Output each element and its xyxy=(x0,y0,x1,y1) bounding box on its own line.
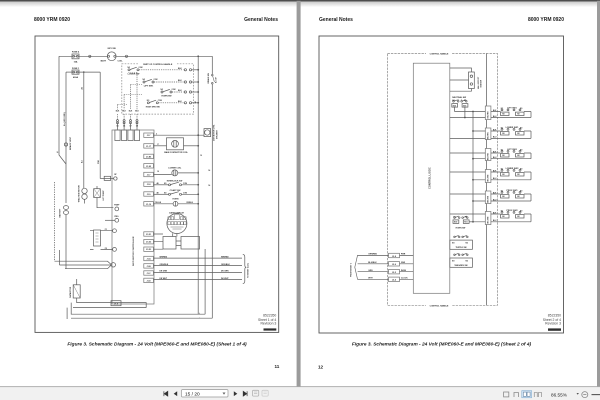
svg-text:J1-17: J1-17 xyxy=(146,146,151,148)
svg-text:DASH DISPLAY: DASH DISPLAY xyxy=(169,211,184,214)
wire V2 left rail xyxy=(65,72,67,269)
switch HIGH SPD SW contacts xyxy=(147,100,158,104)
wire B minus converge xyxy=(55,261,112,269)
svg-text:B+ (LED GND): B+ (LED GND) xyxy=(64,112,66,126)
svg-text:COM: COM xyxy=(158,100,163,102)
svg-text:BELTRN: BELTRN xyxy=(488,153,490,160)
svg-text:NEUTRAL SW: NEUTRAL SW xyxy=(452,96,466,99)
svg-text:11: 11 xyxy=(275,364,280,369)
svg-text:11: 11 xyxy=(57,152,59,154)
bus B plus xyxy=(71,313,205,315)
svg-text:DATA: DATA xyxy=(401,269,407,272)
node connector on top wire right xyxy=(125,55,127,57)
terminal F2 xyxy=(113,248,117,252)
icon single page view xyxy=(504,392,509,397)
svg-text:TANG/REV SW: TANG/REV SW xyxy=(454,264,467,267)
svg-text:Figure 3. Schematic Diagram -: Figure 3. Schematic Diagram - 24 Volt (M… xyxy=(352,342,532,348)
brace from sheet 1 xyxy=(355,255,358,280)
svg-text:J1-B: J1-B xyxy=(147,266,152,268)
wire switch row 4 xyxy=(158,102,183,104)
svg-text:BLU/BLK: BLU/BLK xyxy=(368,262,377,264)
svg-text:COIL: COIL xyxy=(118,60,124,62)
toolbar background xyxy=(0,387,600,400)
svg-text:Figure 3. Schematic Diagram -: Figure 3. Schematic Diagram - 24 Volt (M… xyxy=(67,342,247,348)
switch module LOWER SW2 xyxy=(491,170,531,180)
svg-text:DK WHT: DK WHT xyxy=(160,278,168,280)
connector J7 plug xyxy=(111,301,121,306)
connector block 4 xyxy=(485,170,491,183)
svg-text:J7-8: J7-8 xyxy=(114,303,118,305)
svg-text:PROX SW1: PROX SW1 xyxy=(507,190,519,192)
svg-text:8522350: 8522350 xyxy=(263,313,276,317)
switch module LIFT SW2 xyxy=(491,151,531,159)
label CONTROL HANDLE bottom xyxy=(426,303,452,307)
wire neutral drops xyxy=(455,107,465,117)
wire switch row 1 xyxy=(139,69,184,71)
wire V4 PSD xyxy=(99,72,101,178)
wire sensor feeds xyxy=(450,68,472,91)
gap between page 1 and page 2 xyxy=(297,1,301,387)
wire battery plus top run xyxy=(59,55,212,57)
svg-text:BELTRN: BELTRN xyxy=(488,132,490,139)
svg-text:HORN: HORN xyxy=(173,199,179,201)
svg-text:J1-D3: J1-D3 xyxy=(146,249,151,251)
footer revision block page 1 xyxy=(258,313,276,325)
switch module LIFT SW1 xyxy=(491,109,531,118)
svg-text:GRN: GRN xyxy=(368,270,373,272)
wire left drop lines xyxy=(54,182,56,261)
label TANG REV SW xyxy=(452,260,469,262)
svg-text:F2: F2 xyxy=(105,248,107,250)
svg-text:B+ KEY: B+ KEY xyxy=(215,76,217,83)
svg-text:COM: COM xyxy=(183,193,188,195)
junction dot fuse1 node xyxy=(83,71,85,73)
wire V6 rail with brake switch xyxy=(211,56,213,318)
motor traction upper xyxy=(82,188,87,193)
label part of control handle xyxy=(139,62,178,66)
footer revision block page 2 xyxy=(543,313,561,325)
icon continuous view xyxy=(514,393,518,398)
gap right of page 2 xyxy=(597,1,600,387)
svg-text:J1-10: J1-10 xyxy=(146,204,151,206)
switch HORN SW contacts xyxy=(161,89,172,93)
label C pins xyxy=(116,125,138,127)
controller U1 box xyxy=(112,130,154,304)
key switch SW1 xyxy=(107,52,116,61)
svg-text:NO1: NO1 xyxy=(464,222,467,224)
wire J1-7 row to speaker xyxy=(153,134,204,136)
svg-text:COM: COM xyxy=(139,67,144,69)
svg-text:HALL EFFECT: HALL EFFECT xyxy=(477,76,480,89)
svg-text:TURTLE SW: TURTLE SW xyxy=(455,247,466,249)
svg-text:FUSE 1: FUSE 1 xyxy=(72,68,80,70)
svg-text:C6: C6 xyxy=(123,125,125,127)
switch module PROX SW2 xyxy=(491,212,531,222)
svg-text:PSD: PSD xyxy=(98,159,100,164)
svg-text:TRACTION MOTOR: TRACTION MOTOR xyxy=(77,185,80,203)
svg-text:86.55%: 86.55% xyxy=(551,392,567,397)
svg-text:HORN SW: HORN SW xyxy=(456,228,466,230)
labels module LOWER SW1 xyxy=(488,127,524,139)
dash display M1 xyxy=(167,214,187,234)
svg-text:10: 10 xyxy=(200,155,202,157)
svg-text:J2-8: J2-8 xyxy=(392,256,396,258)
svg-text:DIST MOTOR CTRL: DIST MOTOR CTRL xyxy=(214,124,216,141)
label J1 pins xyxy=(146,135,151,282)
button prev page xyxy=(174,391,178,396)
labels module LIFT SW1 xyxy=(488,107,524,118)
svg-text:LIFT SW2: LIFT SW2 xyxy=(507,149,517,151)
wire fuse1 left xyxy=(66,71,72,73)
svg-text:KEY SW: KEY SW xyxy=(108,48,116,50)
switch TURTLE SW xyxy=(450,235,473,249)
svg-text:BRAKE SW: BRAKE SW xyxy=(207,73,210,84)
battery BT1 xyxy=(63,206,68,210)
svg-text:BATT: BATT xyxy=(101,59,107,62)
horn LS1 xyxy=(153,203,173,205)
connector block 5 xyxy=(485,191,491,204)
wire switch row 2 xyxy=(154,81,184,83)
label CONTROL HANDLE top xyxy=(426,52,452,56)
svg-text:FUSE 4: FUSE 4 xyxy=(72,51,80,54)
switch brake SW contacts xyxy=(212,74,214,76)
button last page xyxy=(243,391,247,396)
svg-text:ORG/BLK: ORG/BLK xyxy=(221,264,230,266)
coil K2 lower xyxy=(153,173,171,175)
connector J1 pin boxes xyxy=(144,133,154,283)
connector block 3 xyxy=(485,149,491,161)
svg-text:NO1: NO1 xyxy=(463,105,466,107)
button rotate ghost xyxy=(253,390,259,396)
connector J2 comm plugs xyxy=(389,253,400,281)
svg-text:+: + xyxy=(199,312,200,314)
wire V3 A1 xyxy=(83,72,85,188)
wire dashed drops below handle box xyxy=(118,114,138,120)
wire V5 rail xyxy=(197,56,199,314)
switch HORN SW contacts page2 xyxy=(453,216,469,223)
motor traction lower xyxy=(94,230,101,246)
wire dashed internal routing xyxy=(118,73,138,110)
page 1 small labels xyxy=(57,48,250,318)
label TURTLE SW xyxy=(452,243,469,245)
svg-text:PROX SW2: PROX SW2 xyxy=(507,210,519,212)
wire pin drops to J6 plugs xyxy=(118,123,138,131)
svg-text:BELTRN: BELTRN xyxy=(488,216,490,223)
svg-text:J1-7: J1-7 xyxy=(147,175,151,177)
labels module PROX SW2 xyxy=(488,210,524,224)
node brake vent circle xyxy=(64,143,67,146)
svg-text:12: 12 xyxy=(318,365,324,370)
svg-text:SENSOR: SENSOR xyxy=(481,79,483,87)
switch module LOWER SW1 xyxy=(491,129,531,139)
connector block 6 xyxy=(485,212,491,225)
svg-text:BRAKE VENT: BRAKE VENT xyxy=(69,136,72,150)
wire horn link xyxy=(469,221,473,223)
svg-text:CONTROL LOGIC: CONTROL LOGIC xyxy=(428,167,432,189)
terminal F1 xyxy=(113,229,117,233)
label J2 plugs xyxy=(392,256,397,282)
svg-text:WH/RED: WH/RED xyxy=(160,256,168,258)
svg-text:C7: C7 xyxy=(129,125,131,127)
svg-text:WH/RED: WH/RED xyxy=(221,256,229,258)
switch NEUTRAL SW contacts xyxy=(452,100,468,107)
svg-text:YEL/LB: YEL/LB xyxy=(155,202,162,204)
svg-text:LOWER SW: LOWER SW xyxy=(128,73,140,75)
svg-text:400A: 400A xyxy=(73,76,78,79)
svg-text:CAPACITOR: CAPACITOR xyxy=(69,286,72,298)
svg-text:8000 YRM 0920: 8000 YRM 0920 xyxy=(34,17,70,23)
svg-text:8522350: 8522350 xyxy=(548,313,561,317)
svg-text:LIFT SW1: LIFT SW1 xyxy=(507,107,517,109)
junction dots collector xyxy=(464,111,474,223)
connector block 2 xyxy=(485,128,491,140)
svg-text:15 / 20: 15 / 20 xyxy=(185,391,200,397)
svg-text:J1-D: J1-D xyxy=(147,280,152,282)
label wire number ticks xyxy=(156,134,159,195)
svg-text:J1-A: J1-A xyxy=(147,258,152,261)
svg-text:COM: COM xyxy=(183,183,188,185)
svg-text:F1: F1 xyxy=(105,229,107,231)
svg-text:ORN/RED: ORN/RED xyxy=(368,254,377,256)
wire display feeds xyxy=(153,234,163,249)
svg-text:DK WHT: DK WHT xyxy=(221,278,229,280)
svg-text:C8: C8 xyxy=(136,125,138,127)
svg-text:RED/LB: RED/LB xyxy=(187,202,194,204)
svg-text:CONTROL HANDLE: CONTROL HANDLE xyxy=(430,304,449,307)
wire SP feed xyxy=(100,178,113,180)
svg-text:COAST SW: COAST SW xyxy=(170,189,181,192)
svg-text:DK GRN: DK GRN xyxy=(160,271,168,273)
terminal B minus xyxy=(111,263,115,267)
svg-text:HIGH SPD SW: HIGH SPD SW xyxy=(146,106,160,108)
svg-text:MAIN CONTACTOR COIL: MAIN CONTACTOR COIL xyxy=(164,151,188,154)
node connector on top wire xyxy=(89,55,91,57)
connector block 1 xyxy=(485,106,491,120)
wire bus risers xyxy=(67,249,205,319)
svg-text:LOWER COIL: LOWER COIL xyxy=(168,167,182,169)
switch interlock contacts xyxy=(153,184,168,186)
svg-text:COM: COM xyxy=(154,79,159,81)
svg-text:HORN SW: HORN SW xyxy=(161,96,171,98)
bus B minus xyxy=(71,317,212,319)
icon facing continuous view xyxy=(534,393,541,398)
wire feeds from collector xyxy=(455,112,486,222)
button snapshot ghost xyxy=(262,390,268,396)
labels module LIFT SW2 xyxy=(488,149,524,160)
svg-text:CONTROL HANDLE: CONTROL HANDLE xyxy=(430,53,449,56)
svg-text:LIFT SW1: LIFT SW1 xyxy=(144,86,154,88)
terminal PUMP xyxy=(115,207,119,211)
svg-text:6: 6 xyxy=(156,134,157,136)
top shadow under bar xyxy=(0,2,600,8)
terminal PMG xyxy=(115,218,119,222)
svg-text:BATTERY: BATTERY xyxy=(58,208,61,217)
svg-text:Revision 3: Revision 3 xyxy=(260,322,276,326)
contactor coil K1 xyxy=(153,145,166,147)
wire feeds from logic xyxy=(450,118,486,215)
svg-text:COM: COM xyxy=(172,89,177,91)
svg-text:General Notes: General Notes xyxy=(244,17,278,23)
switch TANG REV SW xyxy=(450,253,473,267)
switch LOWER SW contacts xyxy=(128,67,139,71)
zoom dropdown caret xyxy=(577,393,579,395)
svg-text:PMG: PMG xyxy=(114,216,119,218)
svg-text:GND: GND xyxy=(401,262,406,264)
wire comm lines to sheet 2 xyxy=(153,258,242,279)
svg-text:FROM SHEET 1: FROM SHEET 1 xyxy=(351,263,353,277)
footer code bar page 1 xyxy=(264,328,277,330)
svg-text:PUMP: PUMP xyxy=(114,205,120,207)
svg-text:J1-8: J1-8 xyxy=(147,184,151,186)
switch coast contacts xyxy=(153,193,168,195)
svg-text:CLOCK: CLOCK xyxy=(401,278,408,280)
connector pins C5-C8 xyxy=(117,120,119,122)
toolbar top border xyxy=(0,385,600,388)
svg-text:LOWER SW1: LOWER SW1 xyxy=(506,127,520,129)
svg-text:BELTRN: BELTRN xyxy=(488,111,490,118)
icon facing view selected xyxy=(522,391,532,398)
svg-text:PART OF CONTROL HANDLE: PART OF CONTROL HANDLE xyxy=(143,63,173,66)
svg-text:Revision 3: Revision 3 xyxy=(545,322,561,326)
page number input xyxy=(182,390,229,397)
label comm rows page2 xyxy=(368,254,408,280)
svg-text:J1-7: J1-7 xyxy=(147,135,151,137)
svg-text:8000 YRM 0920: 8000 YRM 0920 xyxy=(528,17,564,23)
svg-text:NO2: NO2 xyxy=(453,105,456,107)
svg-text:17: 17 xyxy=(157,144,159,146)
svg-text:NO2: NO2 xyxy=(454,222,457,224)
svg-text:J1-S2: J1-S2 xyxy=(146,166,151,168)
svg-text:14: 14 xyxy=(194,102,197,104)
svg-text:14: 14 xyxy=(208,184,210,187)
svg-text:BELTRN: BELTRN xyxy=(488,195,490,202)
svg-text:14: 14 xyxy=(208,169,210,172)
wire comm rows xyxy=(358,256,414,280)
labels module LOWER SW2 xyxy=(488,168,524,182)
svg-text:LIFT PUMP: LIFT PUMP xyxy=(103,190,105,201)
button next page xyxy=(234,391,238,396)
control handle enclosure page1 xyxy=(122,64,194,114)
control handle enclosure page2 xyxy=(388,54,498,306)
svg-text:PWR: PWR xyxy=(401,254,406,256)
pump motor lift xyxy=(94,189,101,198)
connector box below display right xyxy=(181,237,200,250)
svg-text:J1-C: J1-C xyxy=(147,273,152,275)
zoom out button xyxy=(582,392,588,398)
button first page xyxy=(164,391,168,396)
svg-text:DIST MOTOR CONTROLLER: DIST MOTOR CONTROLLER xyxy=(133,236,135,266)
sensor B1 xyxy=(469,72,475,89)
wire V1 battery drop xyxy=(59,56,66,164)
speaker SP1 xyxy=(204,129,211,137)
svg-text:J1-9: J1-9 xyxy=(147,194,151,196)
capacitor C1 xyxy=(73,285,80,298)
svg-text:J1-D1: J1-D1 xyxy=(146,234,151,236)
switch module PROX SW1 xyxy=(491,192,531,202)
svg-text:18: 18 xyxy=(157,171,159,173)
schematic border page 2 xyxy=(319,36,564,333)
svg-text:J2-5: J2-5 xyxy=(392,272,396,274)
fuse F4 xyxy=(72,54,79,59)
wire fuse1 right xyxy=(79,71,100,73)
schematic border page 1 xyxy=(35,36,279,332)
zoom slider track xyxy=(592,394,600,396)
footer code bar page 2 xyxy=(548,328,561,330)
junction dots V5 xyxy=(197,55,199,146)
svg-text:INTERLOCK SW: INTERLOCK SW xyxy=(167,180,183,182)
wire switch row 3 xyxy=(172,91,184,93)
connector box below display left xyxy=(163,237,176,250)
svg-text:J2-6: J2-6 xyxy=(392,264,396,266)
svg-text:LOWER SW2: LOWER SW2 xyxy=(506,168,520,170)
svg-text:C5: C5 xyxy=(116,125,118,127)
switch LIFT SW contacts xyxy=(143,79,154,83)
wire block column line xyxy=(486,54,488,306)
svg-text:J1-D2: J1-D2 xyxy=(146,242,151,244)
svg-text:J1-B6: J1-B6 xyxy=(146,156,151,158)
labels module PROX SW1 xyxy=(488,190,524,203)
svg-text:General Notes: General Notes xyxy=(319,17,353,23)
svg-text:DK GRN: DK GRN xyxy=(221,271,229,273)
svg-text:SPEAKER: SPEAKER xyxy=(215,130,218,139)
top app bar edge xyxy=(0,0,600,2)
brace to sheet 2 xyxy=(243,255,247,284)
wire collector rail xyxy=(472,112,474,222)
page 2 small labels xyxy=(351,52,524,308)
svg-text:BELTRN: BELTRN xyxy=(488,174,490,181)
connector J6 plugs xyxy=(115,130,120,141)
svg-text:TO SHEET 2 (J1): TO SHEET 2 (J1) xyxy=(247,263,249,278)
fuse F1 xyxy=(72,70,79,74)
control logic box U2 xyxy=(413,63,450,293)
svg-text:15A: 15A xyxy=(74,60,78,63)
svg-text:ORG/BLK: ORG/BLK xyxy=(160,264,169,266)
